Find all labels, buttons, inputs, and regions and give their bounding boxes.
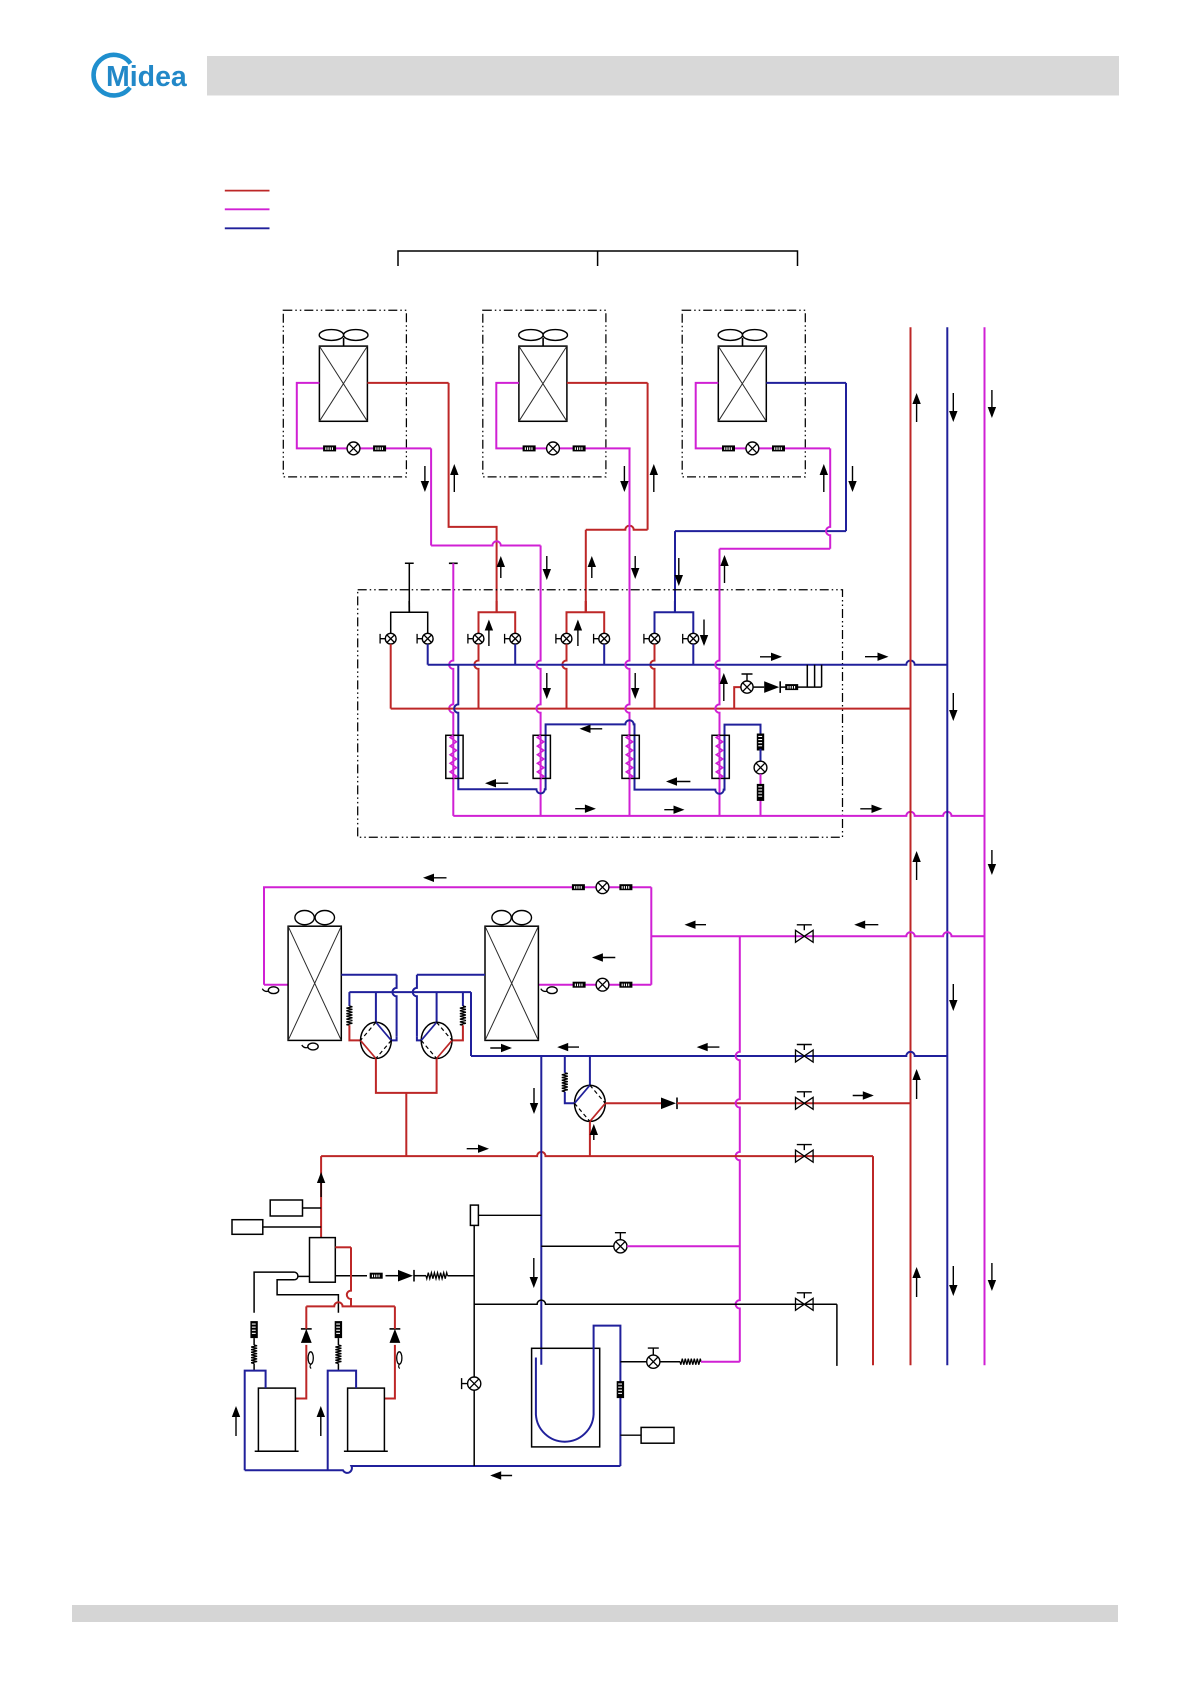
riser red up arrow y851 — [912, 851, 920, 880]
wire unit 1 gas to branch pair 2 — [449, 383, 497, 612]
legend line low-pressure (blue) — [225, 227, 270, 229]
indoor unit 1 heat exchanger — [319, 346, 367, 421]
flow arrow gas bus right 1 — [760, 653, 782, 661]
oil return solenoid valve — [647, 1348, 660, 1368]
flow arrow suction drop 1 — [530, 1088, 538, 1114]
oil return B strainer — [335, 1321, 342, 1338]
compressor 2 discharge (red) — [384, 1345, 395, 1399]
4-way B capillary top (blue) — [462, 992, 464, 1006]
indoor unit 1 enclosure — [283, 310, 406, 477]
compressor 1 discharge upper — [305, 1306, 307, 1329]
legend line liquid (red) — [225, 190, 270, 192]
subcooler 1 coil — [450, 735, 456, 778]
4-way B pilot capillary — [460, 1006, 466, 1025]
high pressure sensor box — [232, 1220, 263, 1235]
oil return from separator — [298, 1275, 310, 1277]
ODU liquid to HX1 link — [264, 984, 288, 986]
oil return B capillary — [335, 1345, 341, 1364]
oil return A capillary — [251, 1345, 257, 1364]
injection solenoid valve — [614, 1233, 627, 1253]
subcooler circuit strainer bottom — [757, 784, 764, 801]
oil return B link — [337, 1338, 339, 1345]
flow arrow down branch 2 liquid — [543, 556, 551, 580]
suction main down (blue) — [470, 992, 472, 1056]
valve pair 4 right drop (blue) — [692, 644, 694, 665]
wire unit 2 gas drop — [647, 383, 649, 530]
riser red up arrow y1267 — [912, 1267, 920, 1297]
4-way C bottom port (red) — [589, 1121, 591, 1156]
compressor 1 base — [255, 1450, 299, 1452]
liquid line m3 — [625, 448, 629, 816]
oil separator outlet (red) — [335, 1246, 351, 1248]
main suction riser (blue) — [946, 327, 948, 1365]
flow arrow up branch 2 stem — [497, 556, 505, 578]
riser magenta down arrow y390 — [988, 390, 996, 418]
solenoid valve pair 3 left (EVH) — [556, 633, 572, 644]
oil return A strainer — [250, 1321, 257, 1338]
flow arrow compressor 2 suction — [317, 1406, 325, 1436]
branch pair 2 header bracket — [479, 601, 516, 633]
capillary header — [807, 665, 822, 687]
suction manifold (blue) — [349, 991, 471, 993]
subcooler 2-3 top link — [546, 720, 635, 735]
bypass link to strainer — [780, 686, 786, 688]
4-way A capillary top (blue) — [348, 992, 350, 1006]
oil return valve outlet — [660, 1361, 680, 1363]
flow arrow up unit 1 gas — [450, 464, 458, 492]
footer gray bar — [72, 1605, 1118, 1622]
liquid service valve — [796, 925, 814, 943]
bypass link a — [386, 1275, 399, 1277]
flow arrow m4 up mid — [720, 673, 728, 701]
ODU heat exchanger 2 — [485, 926, 538, 1040]
suction bus (blue) — [245, 1466, 621, 1473]
HX1 inlet sensor — [262, 987, 278, 994]
hot-gas bypass line (black) — [474, 1300, 837, 1304]
branch pair 1 header bracket — [391, 601, 428, 633]
subcooler 4 inner tube — [724, 735, 726, 778]
bypass check valve — [764, 681, 780, 693]
compressor 2 oil sight — [397, 1352, 402, 1369]
solenoid valve pair 4 left (EVH) — [644, 633, 660, 644]
subcooler electronic expansion valve — [754, 761, 767, 774]
valve pair 1 right drop (blue) — [427, 644, 429, 665]
ODU liquid to HX2 line — [538, 984, 651, 986]
indoor unit 1 electronic expansion valve — [347, 442, 360, 455]
oil separator inlet (red) — [320, 1156, 322, 1238]
4-way C capillary top (blue) — [564, 1056, 566, 1073]
indoor unit 2 strainer right — [573, 445, 586, 451]
riser blue down arrow y1266 — [949, 1266, 957, 1296]
accumulator vessel — [532, 1348, 600, 1447]
valve pair 3 right drop (blue) — [603, 644, 605, 665]
indoor unit 1 fan — [319, 330, 368, 347]
svg-text:Midea: Midea — [106, 61, 188, 93]
level sensor lead — [620, 1434, 641, 1436]
ODU liquid right vertical — [650, 887, 652, 985]
wire unit 3 gas jog — [675, 530, 846, 532]
subcooler 4 top to EXV — [725, 725, 761, 736]
ODU EXV-B strainer left — [573, 982, 586, 988]
bypass vertical (black) — [473, 1225, 475, 1466]
subcooler 4 shell — [712, 735, 729, 778]
flow arrow suction drop 2 — [530, 1258, 538, 1288]
compressor 1 body — [258, 1388, 295, 1451]
oil return branch B line — [277, 1280, 338, 1313]
bypass link b — [415, 1275, 427, 1277]
solenoid valve pair 1 right (EVL) — [417, 633, 433, 644]
bypass capillary — [426, 1273, 448, 1279]
bypass solenoid valve lower — [462, 1377, 481, 1390]
suction service valve — [796, 1045, 814, 1063]
mode-selector box enclosure — [358, 590, 843, 838]
flow arrow pair 4 internal down — [700, 620, 708, 647]
accumulator outlet EXV line — [620, 1361, 646, 1363]
accumulator level sensor box — [641, 1427, 674, 1443]
oil return split loop — [295, 1272, 298, 1280]
oil return capillary — [680, 1359, 701, 1365]
indoor unit 3 enclosure — [682, 310, 805, 477]
compressor 1 check valve — [301, 1329, 312, 1343]
compressor discharge manifold — [306, 1302, 395, 1306]
flow arrow liquid line 1 — [685, 921, 707, 929]
flow arrow suction left 2 — [697, 1043, 720, 1051]
oil separator outlet drop — [347, 1247, 351, 1306]
flow arrow up branch 3 stem — [588, 556, 596, 578]
liquid line m4 — [715, 549, 719, 816]
indoor unit 2 enclosure — [483, 310, 606, 477]
low-pressure gas bus (blue) — [428, 661, 948, 665]
bypass valve outlet — [753, 686, 764, 688]
subcooler 2 shell — [533, 735, 550, 778]
subcooler 3 inner tube — [634, 735, 636, 778]
flow arrow liquid bus 1 — [575, 805, 596, 813]
indoor units group bracket — [398, 251, 798, 266]
solenoid valve pair 1 left (EVH) — [380, 633, 396, 644]
ODU fan 1 — [295, 911, 335, 925]
oil return A link — [253, 1338, 255, 1345]
hot-gas check valve — [661, 1098, 677, 1110]
branch pair 2 stem stub — [496, 601, 498, 612]
4-way C right port link (red) — [605, 1102, 661, 1104]
4-way reversing valve A — [361, 1022, 392, 1058]
bypass link c — [448, 1275, 475, 1277]
ODU liquid top line (magenta) — [264, 887, 651, 985]
flow arrow compressor 1 suction — [232, 1406, 240, 1436]
main gas riser (red) — [910, 327, 912, 1365]
compressor 2 body — [348, 1388, 385, 1451]
subcooler circuit strainer top — [757, 734, 764, 751]
flow arrow liquid bus 3 — [860, 805, 882, 813]
injection line left (black) — [541, 1245, 614, 1247]
subcooler 1 inner tube — [457, 735, 459, 778]
4-way discharge manifold (red) — [376, 1059, 437, 1157]
indoor unit 1 strainer left — [323, 445, 336, 451]
sensor lead to suction — [478, 1214, 541, 1216]
indoor unit 3 strainer left — [722, 445, 735, 451]
branch pair 4 header bracket — [655, 601, 694, 633]
flow arrow m2 down mid — [543, 673, 551, 699]
flow arrow suction left 1 — [557, 1043, 579, 1051]
4-way C top port — [589, 1056, 591, 1085]
compressor 1 oil sight — [308, 1352, 313, 1369]
flow arrow pair 2 internal up — [485, 620, 493, 647]
indoor unit 3 electronic expansion valve — [746, 442, 759, 455]
flow arrow 4-way C up — [590, 1124, 598, 1140]
discharge bus (red) — [321, 1152, 873, 1156]
compressor 2 suction (blue) — [328, 1371, 356, 1471]
riser blue down arrow y984 — [949, 984, 957, 1011]
solenoid valve pair 4 right (EVL) — [683, 633, 699, 644]
main liquid riser (magenta) — [984, 327, 986, 1365]
indoor unit 1 gas pipe (red) — [367, 382, 448, 384]
ODU electronic expansion valve A — [596, 881, 609, 894]
flow arrow down branch 4 stem — [675, 558, 683, 586]
subcooler 1-2 bottom link — [458, 778, 545, 793]
pressure sensor lead — [263, 1226, 321, 1228]
riser magenta down arrow y1263 — [988, 1263, 996, 1291]
discharge bus tail (red) — [872, 1156, 874, 1365]
wire unit 1 liquid jog — [431, 541, 540, 545]
wire unit 3 liquid jog — [720, 548, 831, 550]
subcooler injection from gas bus — [454, 665, 458, 736]
4-way A capillary bottom (red) — [349, 1025, 360, 1040]
subcooler 2 coil — [537, 735, 543, 778]
branch pair 3 header bracket — [567, 601, 605, 633]
liquid bus (magenta) — [453, 812, 984, 816]
wire branch pair 3 stem upper — [585, 530, 587, 613]
branch pair 1 stem — [408, 601, 410, 612]
oil return A to suction — [253, 1364, 255, 1371]
pressure switch lead — [303, 1207, 322, 1209]
4-way reversing valve C — [575, 1085, 606, 1121]
bypass solenoid valve — [741, 674, 753, 693]
solenoid valve pair 3 right (EVL) — [594, 633, 610, 644]
subcooler 3 coil — [626, 735, 632, 778]
discharge service valve — [796, 1145, 814, 1163]
suction line to riser (blue) — [471, 1052, 947, 1056]
4-way valve A top port — [375, 992, 377, 1022]
HX2 gas top link — [417, 974, 485, 976]
subcooler 3 shell — [622, 735, 639, 778]
indoor unit 2 fan — [519, 330, 568, 347]
ODU EXV-B strainer right — [619, 982, 632, 988]
solenoid valve pair 2 left (EVH) — [468, 633, 484, 644]
compressor 1 discharge (red) — [295, 1345, 306, 1399]
valve pair 2 right drop (blue) — [514, 644, 516, 665]
valve pair 4 left drop (red) — [650, 644, 654, 709]
indoor unit 3 strainer right — [772, 445, 785, 451]
solenoid valve pair 2 right (EVL) — [505, 633, 521, 644]
flow arrow subcooler top link — [580, 725, 603, 733]
flow arrow ODU mid line — [592, 953, 615, 961]
valve pair 2 left drop (red) — [474, 644, 478, 709]
indoor unit 2 electronic expansion valve — [547, 442, 560, 455]
indoor unit 2 heat exchanger — [519, 346, 567, 421]
valve pair 3 left drop (red) — [562, 644, 566, 709]
riser red up arrow y1069 — [912, 1069, 920, 1099]
high pressure switch box — [270, 1200, 302, 1216]
oil return to liquid line (magenta) — [701, 1361, 740, 1363]
wire unit 3 gas drop — [845, 383, 847, 531]
subcooler 1 shell — [446, 735, 463, 778]
header gray bar — [207, 56, 1119, 96]
flow arrow up branch 4 liquid — [720, 555, 728, 583]
subcooler 4 coil — [716, 735, 722, 778]
ODU electronic expansion valve B — [596, 978, 609, 991]
indoor unit 3 heat exchanger — [718, 346, 766, 421]
flow arrow pair 3 internal up — [574, 620, 582, 647]
flow arrow suction bus — [490, 1471, 512, 1479]
legend line high-pressure (magenta) — [225, 208, 270, 210]
flow arrow m3 down mid — [631, 673, 639, 699]
flow arrow suction right — [490, 1044, 512, 1052]
riser magenta down arrow y850 — [988, 850, 996, 875]
bypass strainer (oil sep) — [370, 1273, 383, 1279]
subcooler EXV upper link — [760, 749, 762, 761]
subcooler EXV lower link — [760, 774, 762, 816]
bypass link to header — [798, 686, 807, 688]
indoor unit 1 liquid pipe (magenta) — [297, 383, 431, 449]
Midea logo — [94, 55, 188, 96]
HX1 gas top link — [341, 974, 396, 976]
ODU EXV-A strainer right — [619, 884, 632, 890]
hot-gas service valve — [796, 1092, 814, 1110]
subcooler 3-4 bottom link — [635, 778, 725, 793]
branch pair 3 stem stub — [585, 601, 587, 612]
HX2 gas elbow — [417, 1036, 422, 1040]
liquid branch drop (magenta) — [736, 936, 740, 1361]
ODU heat exchanger 1 — [288, 926, 341, 1040]
flow arrow up unit 2 gas — [650, 464, 658, 492]
capped spare port (black) — [405, 563, 414, 612]
hot-gas bypass tail — [836, 1304, 838, 1366]
wire unit 2 gas jog — [586, 526, 648, 530]
flow arrow discharge bus right — [467, 1145, 489, 1153]
HX2 gas drop — [413, 975, 417, 1036]
wire unit 1 liquid drop — [430, 448, 432, 545]
wire unit 3 liquid drop — [826, 448, 830, 548]
compressor 2 discharge upper — [394, 1306, 396, 1329]
oil sep bypass outlet — [335, 1275, 367, 1277]
riser blue down arrow y693 — [949, 693, 957, 721]
indoor unit 2 strainer left — [523, 445, 536, 451]
flow arrow down branch 3 liquid — [631, 556, 639, 579]
capped spare liquid port cap — [449, 562, 458, 564]
hot-gas bypass service valve — [796, 1293, 814, 1311]
accumulator oil return strainer — [617, 1381, 624, 1398]
valve pair 1 left drop (red) — [390, 644, 392, 709]
flow arrow down unit 1 liquid — [421, 466, 429, 492]
flow arrow up unit 3 liquid — [820, 464, 828, 492]
4-way A pilot capillary — [346, 1006, 352, 1025]
liquid line m2 — [536, 546, 540, 816]
indoor unit 3 gas pipe (blue) — [766, 382, 846, 384]
flow arrow gas bus right 2 — [865, 653, 889, 661]
compressor 2 base — [344, 1450, 388, 1452]
indoor unit 1 strainer right — [373, 445, 386, 451]
pressure sensor body — [470, 1205, 478, 1225]
4-way C pilot capillary — [562, 1073, 568, 1092]
riser red up arrow y393 — [912, 393, 920, 422]
wire branch pair 4 stem upper — [674, 531, 676, 612]
liquid service line (magenta) — [651, 932, 984, 936]
compressor 2 check valve — [390, 1329, 401, 1343]
4-way B capillary bottom (red) — [452, 1025, 463, 1040]
bypass strainer — [785, 684, 798, 690]
flow arrow subcooler bottom link 2 — [666, 777, 690, 785]
HX1 defrost sensor — [302, 1043, 318, 1050]
flow arrow hot-gas right — [853, 1091, 874, 1099]
flow arrow ODU top line — [423, 874, 447, 882]
HX2 inlet sensor — [541, 987, 557, 994]
indoor unit 3 fan — [718, 330, 767, 347]
bypass valve feed (red) — [734, 687, 741, 709]
flow arrow oil sep inlet up — [317, 1172, 325, 1197]
4-way reversing valve B — [421, 1022, 452, 1058]
flow arrow liquid bus 2 — [664, 806, 684, 814]
ODU fan 2 — [492, 911, 532, 925]
flow arrow down unit 3 gas — [848, 466, 856, 492]
suction drop to accumulator (blue) — [540, 1056, 542, 1365]
4-way valve B top port — [436, 992, 438, 1022]
injection line right (magenta) — [627, 1245, 740, 1247]
branch pair 4 stem stub — [674, 601, 676, 612]
oil return branch A line — [254, 1272, 295, 1313]
bypass check valve (oil sep) — [398, 1270, 414, 1282]
compressor 1 suction (blue) — [245, 1371, 266, 1471]
ODU EXV-A strainer left — [572, 884, 585, 890]
flow arrow down unit 2 liquid — [620, 466, 628, 492]
hot-gas line to riser (red) — [677, 1102, 911, 1104]
flow arrow subcooler bottom link 1 — [485, 779, 508, 787]
oil separator vessel — [310, 1238, 336, 1283]
accumulator U-tube — [536, 1326, 621, 1466]
indoor unit 3 liquid pipe (magenta) — [696, 383, 830, 449]
HX1 gas drop — [392, 975, 396, 1036]
liquid line m1 (capped) — [449, 563, 453, 816]
indoor unit 2 liquid pipe (magenta) — [496, 383, 630, 449]
4-way C left port link (blue) — [565, 1092, 575, 1104]
flow arrow liquid line 2 — [854, 921, 878, 929]
subcooler 2 inner tube — [545, 735, 547, 778]
riser blue down arrow y393 — [949, 393, 957, 422]
indoor unit 2 gas pipe (red) — [567, 382, 648, 384]
high-pressure gas bus (red) — [391, 708, 911, 710]
HX1 gas elbow — [391, 1036, 396, 1040]
oil return B to suction — [337, 1364, 339, 1371]
